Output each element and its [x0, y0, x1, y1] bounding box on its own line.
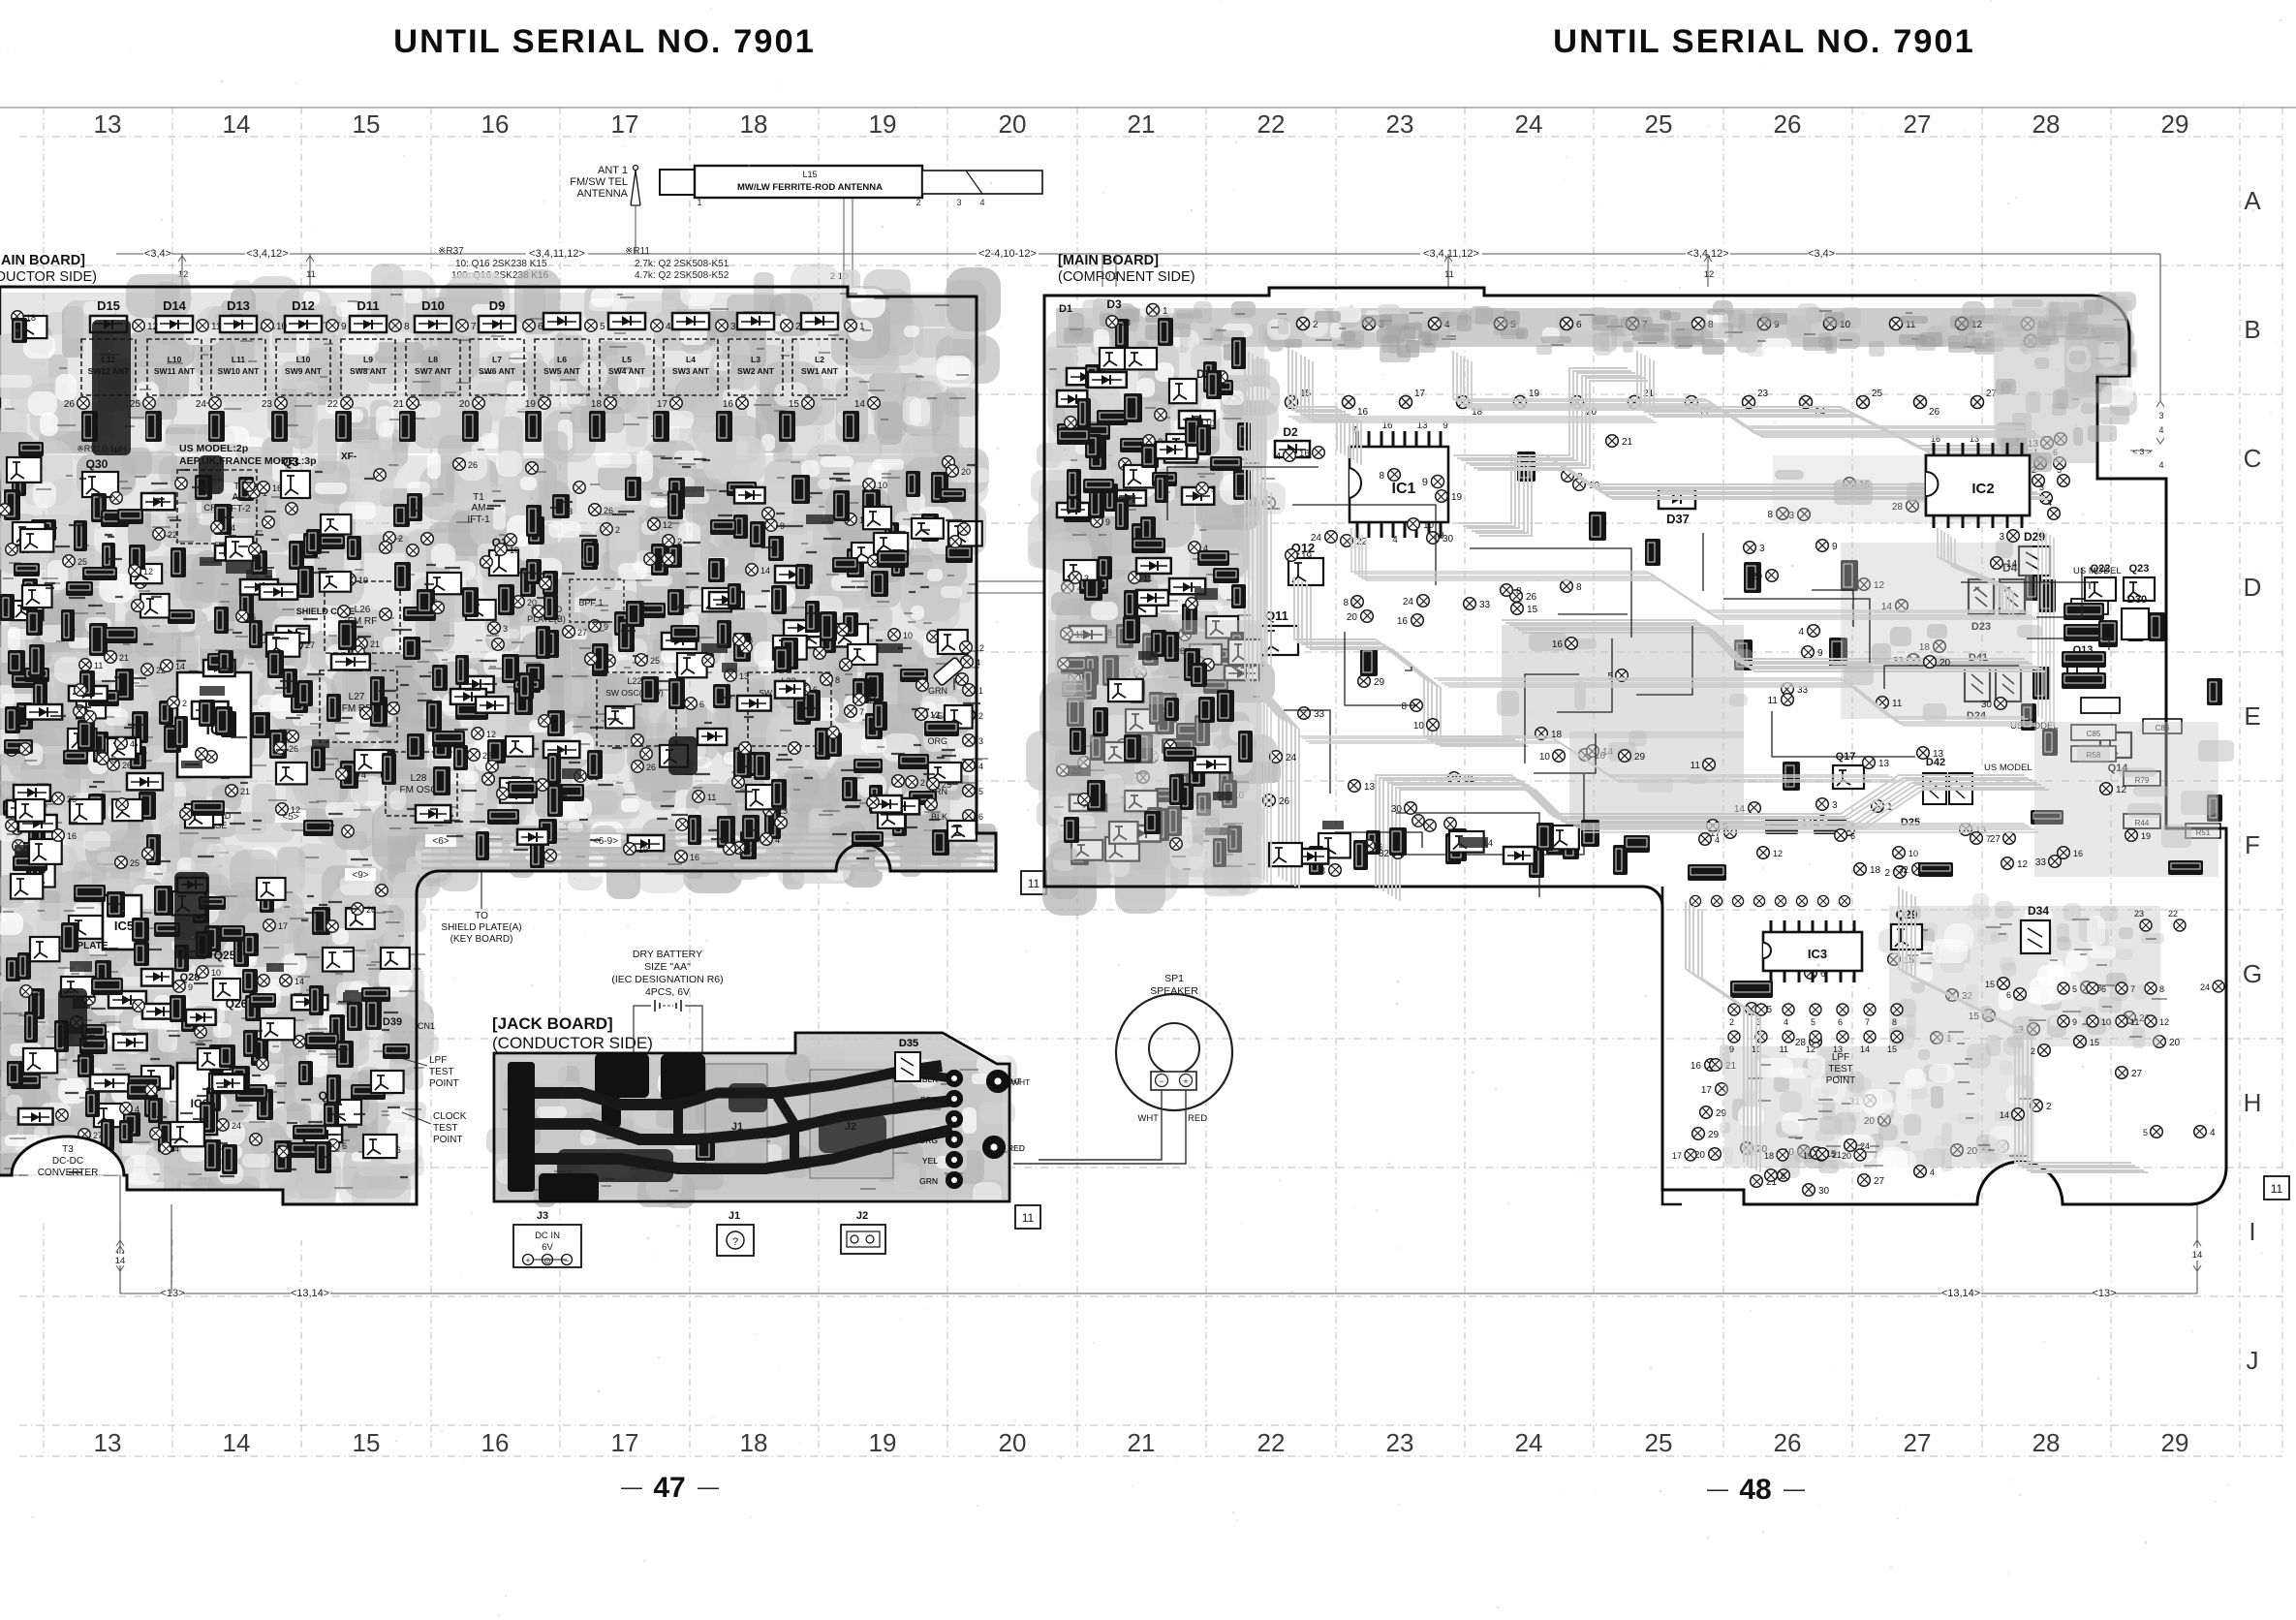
- svg-text:10: 10: [1423, 520, 1435, 531]
- svg-text:L10: L10: [168, 355, 182, 364]
- svg-text:13: 13: [1364, 782, 1376, 793]
- svg-text:ORG: ORG: [927, 736, 947, 746]
- svg-text:GRN: GRN: [928, 686, 947, 696]
- svg-text:2: 2: [35, 987, 40, 997]
- svg-text:10: 10: [211, 968, 221, 978]
- svg-text:32: 32: [1898, 865, 1909, 876]
- svg-text:30: 30: [1443, 534, 1454, 545]
- svg-text:4: 4: [130, 739, 135, 749]
- svg-text:SPEAKER: SPEAKER: [1150, 985, 1198, 997]
- svg-text:20: 20: [2169, 1038, 2181, 1048]
- svg-text:SW2 ANT: SW2 ANT: [737, 366, 775, 376]
- svg-text:IC2: IC2: [1971, 481, 1994, 497]
- svg-text:16: 16: [690, 853, 699, 862]
- svg-text:D30: D30: [2127, 594, 2147, 606]
- svg-text:17: 17: [278, 921, 288, 931]
- svg-text:24: 24: [1860, 1141, 1870, 1151]
- svg-text:5: 5: [2072, 984, 2077, 994]
- svg-text:2: 2: [1884, 868, 1890, 879]
- svg-text:L9: L9: [363, 355, 373, 364]
- svg-text:FM/SW TEL: FM/SW TEL: [570, 176, 628, 188]
- svg-text:+: +: [525, 1256, 530, 1265]
- svg-text:8: 8: [1781, 1171, 1785, 1181]
- svg-text:23: 23: [1386, 1428, 1414, 1457]
- svg-text:12: 12: [1704, 269, 1715, 280]
- svg-text:J: J: [2247, 1346, 2259, 1375]
- svg-text:19: 19: [525, 399, 537, 410]
- svg-text:21: 21: [1622, 437, 1633, 448]
- svg-text:POINT: POINT: [1826, 1075, 1856, 1086]
- svg-text:6: 6: [2006, 990, 2011, 1000]
- svg-text:14: 14: [2006, 559, 2018, 570]
- svg-text:24: 24: [232, 1121, 241, 1131]
- svg-text:<2-4,10-12>: <2-4,10-12>: [978, 248, 1037, 260]
- svg-text:8: 8: [1892, 1017, 1897, 1027]
- svg-text:L5: L5: [622, 355, 632, 364]
- svg-text:L4: L4: [686, 355, 696, 364]
- svg-text:UNTIL SERIAL NO. 7901: UNTIL SERIAL NO. 7901: [1553, 23, 1975, 60]
- svg-text:4: 4: [1715, 835, 1720, 845]
- svg-text:17: 17: [1414, 389, 1426, 399]
- svg-text:6: 6: [2101, 984, 2106, 994]
- svg-text:22: 22: [1257, 109, 1286, 139]
- svg-text:10: 10: [276, 322, 288, 332]
- svg-text:CONVERTER: CONVERTER: [38, 1168, 99, 1178]
- svg-text:24: 24: [1403, 597, 1414, 607]
- svg-text:18: 18: [740, 109, 768, 139]
- svg-text:29: 29: [2161, 1428, 2189, 1457]
- svg-text:26: 26: [1774, 109, 1802, 139]
- svg-text:13: 13: [1833, 1044, 1843, 1054]
- svg-text:30: 30: [1391, 804, 1403, 815]
- svg-text:I: I: [2249, 1217, 2255, 1246]
- svg-text:[MAIN BOARD]: [MAIN BOARD]: [0, 253, 85, 268]
- svg-text:14: 14: [2000, 1110, 2009, 1120]
- svg-text:19: 19: [869, 1428, 897, 1457]
- svg-text:22: 22: [168, 530, 177, 540]
- svg-text:SW1 ANT: SW1 ANT: [801, 366, 839, 376]
- svg-text:J1: J1: [729, 1210, 740, 1222]
- svg-text:19: 19: [738, 845, 748, 855]
- svg-text:21: 21: [1128, 1428, 1156, 1457]
- svg-text:23: 23: [1121, 318, 1131, 327]
- svg-text:33: 33: [1479, 600, 1491, 610]
- svg-text:6V: 6V: [542, 1242, 553, 1253]
- svg-text:11: 11: [707, 793, 716, 802]
- svg-text:2: 2: [398, 534, 403, 544]
- svg-text:16: 16: [1299, 449, 1311, 459]
- svg-text:L15: L15: [802, 170, 817, 179]
- svg-text:11: 11: [1691, 761, 1701, 771]
- svg-text:—: —: [621, 1475, 642, 1499]
- svg-text:J3: J3: [537, 1210, 548, 1222]
- svg-text:4: 4: [666, 322, 671, 332]
- svg-text:12: 12: [663, 520, 672, 530]
- svg-text:26: 26: [604, 506, 613, 515]
- svg-text:SW7 ANT: SW7 ANT: [415, 366, 452, 376]
- svg-text:5: 5: [1811, 1017, 1815, 1027]
- svg-text:<13>: <13>: [160, 1288, 184, 1299]
- svg-text:30: 30: [1981, 700, 1993, 710]
- svg-text:⊙: ⊙: [543, 1256, 551, 1265]
- svg-text:F: F: [2245, 830, 2260, 859]
- svg-text:2: 2: [182, 699, 187, 708]
- svg-text:WHT: WHT: [1137, 1113, 1159, 1124]
- svg-text:18: 18: [740, 1428, 768, 1457]
- svg-text:3: 3: [956, 198, 961, 207]
- svg-text:8: 8: [1343, 598, 1349, 608]
- svg-text:24: 24: [196, 399, 207, 410]
- svg-text:16: 16: [1397, 616, 1409, 627]
- svg-text:(KEY BOARD): (KEY BOARD): [450, 934, 513, 945]
- svg-text:9: 9: [1832, 542, 1838, 552]
- svg-text:BRN: BRN: [920, 1095, 938, 1105]
- svg-text:10: Q16 2SK238 K15: 10: Q16 2SK238 K15: [455, 259, 547, 269]
- svg-text:26: 26: [1929, 407, 1940, 418]
- svg-text:4: 4: [2158, 425, 2163, 435]
- svg-text:<3,4,12>: <3,4,12>: [246, 248, 288, 260]
- svg-text:6: 6: [813, 685, 818, 695]
- svg-text:14: 14: [223, 1428, 251, 1457]
- svg-text:10: 10: [903, 631, 913, 640]
- svg-text:25: 25: [942, 780, 951, 790]
- svg-text:12: 12: [486, 730, 496, 739]
- svg-text:E: E: [2244, 701, 2260, 731]
- svg-text:2: 2: [978, 711, 983, 721]
- svg-text:DC-DC: DC-DC: [52, 1156, 83, 1167]
- svg-text:4.7k: Q2 2SK508-K52: 4.7k: Q2 2SK508-K52: [635, 270, 729, 281]
- svg-text:7: 7: [1986, 834, 1991, 844]
- svg-text:H: H: [2244, 1088, 2262, 1117]
- svg-text:3: 3: [1084, 574, 1089, 583]
- svg-text:24: 24: [1515, 109, 1543, 139]
- svg-text:13: 13: [94, 1428, 122, 1457]
- svg-text:16: 16: [1691, 1061, 1702, 1072]
- svg-text:<6>: <6>: [432, 836, 449, 847]
- svg-text:TEST: TEST: [429, 1067, 454, 1077]
- svg-text:14: 14: [760, 566, 770, 576]
- svg-text:SW5 ANT: SW5 ANT: [543, 366, 581, 376]
- svg-text:2: 2: [920, 778, 925, 788]
- svg-text:15: 15: [1887, 1044, 1897, 1054]
- svg-text:<9>: <9>: [352, 870, 368, 881]
- svg-text:24: 24: [2200, 982, 2210, 992]
- svg-text:11: 11: [2271, 1182, 2283, 1196]
- svg-text:B: B: [2244, 315, 2260, 344]
- svg-text:22: 22: [327, 399, 339, 410]
- svg-text:SW3 ANT: SW3 ANT: [672, 366, 710, 376]
- svg-text:3: 3: [2039, 483, 2044, 492]
- svg-text:MW/LW FERRITE-ROD ANTENNA: MW/LW FERRITE-ROD ANTENNA: [737, 182, 883, 193]
- svg-text:29: 29: [2161, 109, 2189, 139]
- svg-text:5: 5: [978, 787, 983, 796]
- svg-text:10: 10: [1539, 752, 1551, 763]
- svg-text:(CONDUCTOR SIDE): (CONDUCTOR SIDE): [0, 269, 97, 285]
- svg-text:T3: T3: [62, 1144, 74, 1155]
- svg-text:Q30: Q30: [86, 457, 109, 471]
- svg-text:25: 25: [650, 656, 660, 666]
- svg-text:L8: L8: [428, 355, 438, 364]
- svg-text:11: 11: [1768, 696, 1779, 706]
- svg-text:G: G: [2243, 959, 2262, 988]
- svg-text:26: 26: [468, 460, 478, 470]
- svg-text:26: 26: [646, 763, 656, 772]
- svg-text:D39: D39: [383, 1016, 402, 1028]
- svg-text:9: 9: [1105, 517, 1110, 527]
- svg-text:14: 14: [854, 399, 866, 410]
- svg-text:SP1: SP1: [1164, 973, 1184, 984]
- svg-text:D11: D11: [357, 298, 379, 313]
- svg-text:9: 9: [604, 622, 608, 632]
- svg-text:16: 16: [723, 399, 734, 410]
- svg-text:YEL: YEL: [922, 1156, 938, 1166]
- svg-text:—: —: [698, 1475, 719, 1499]
- svg-text:7: 7: [859, 707, 864, 717]
- svg-text:6: 6: [342, 1141, 347, 1151]
- svg-text:25: 25: [78, 557, 87, 567]
- svg-text:4: 4: [1392, 535, 1398, 545]
- svg-text:2: 2: [915, 198, 920, 207]
- svg-text:3: 3: [730, 322, 736, 332]
- svg-text:DRY BATTERY: DRY BATTERY: [633, 949, 702, 960]
- svg-text:10: 10: [2101, 1017, 2111, 1027]
- svg-text:L27: L27: [349, 692, 365, 702]
- svg-text:48: 48: [1739, 1474, 1771, 1506]
- svg-text:BLK: BLK: [922, 1075, 938, 1084]
- svg-text:25: 25: [1872, 389, 1883, 399]
- svg-text:4: 4: [2210, 1128, 2216, 1138]
- svg-text:AM: AM: [472, 503, 486, 514]
- svg-text:D9: D9: [489, 298, 506, 313]
- svg-text:11: 11: [306, 269, 316, 280]
- svg-text:3: 3: [503, 624, 508, 634]
- svg-text:<13>: <13>: [2092, 1288, 2116, 1299]
- svg-text:SIZE "AA": SIZE "AA": [644, 961, 691, 973]
- svg-text:10: 10: [878, 481, 887, 490]
- svg-text:8: 8: [835, 675, 840, 685]
- svg-text:11: 11: [1028, 877, 1040, 890]
- svg-text:27: 27: [1990, 834, 2001, 845]
- svg-text:26: 26: [482, 751, 492, 761]
- svg-text:Q23: Q23: [2129, 563, 2150, 575]
- svg-text:WHT: WHT: [1011, 1077, 1030, 1087]
- svg-text:25: 25: [1645, 109, 1673, 139]
- svg-text:(COMPONENT SIDE): (COMPONENT SIDE): [1058, 269, 1195, 285]
- svg-text:−: −: [1159, 1076, 1164, 1086]
- svg-text:26: 26: [1774, 1428, 1802, 1457]
- svg-text:16: 16: [481, 1428, 510, 1457]
- svg-text:Q11: Q11: [1265, 608, 1288, 623]
- svg-text:26: 26: [366, 905, 376, 915]
- svg-text:D13: D13: [227, 298, 250, 313]
- svg-text:<3,4,11,12>: <3,4,11,12>: [1423, 248, 1479, 260]
- svg-text:+: +: [1183, 1076, 1188, 1086]
- svg-text:19: 19: [638, 845, 648, 855]
- svg-text:D12: D12: [292, 298, 315, 313]
- svg-text:3: 3: [1999, 532, 2004, 543]
- svg-text:6: 6: [699, 700, 704, 709]
- svg-text:21: 21: [119, 653, 129, 663]
- svg-text:10: 10: [1413, 721, 1425, 732]
- svg-text:12: 12: [2159, 1017, 2169, 1027]
- svg-text:13: 13: [1878, 759, 1890, 769]
- svg-text:4: 4: [1930, 1168, 1935, 1177]
- svg-text:23: 23: [2134, 909, 2144, 919]
- svg-text:20: 20: [961, 467, 971, 477]
- svg-text:(CONDUCTOR SIDE): (CONDUCTOR SIDE): [492, 1034, 653, 1052]
- svg-text:25: 25: [1645, 1428, 1673, 1457]
- svg-text:−: −: [564, 1256, 569, 1265]
- svg-text:IC1: IC1: [1392, 481, 1416, 497]
- svg-text:12: 12: [930, 710, 940, 720]
- svg-text:27: 27: [1874, 1176, 1885, 1187]
- svg-text:19: 19: [358, 576, 368, 585]
- svg-text:11: 11: [1143, 574, 1152, 583]
- svg-text:25: 25: [67, 794, 77, 804]
- svg-text:20: 20: [999, 1428, 1027, 1457]
- svg-text:21: 21: [240, 787, 250, 796]
- svg-text:US MODEL:2p: US MODEL:2p: [179, 443, 248, 454]
- svg-text:SW8 ANT: SW8 ANT: [350, 366, 388, 376]
- svg-text:16: 16: [2073, 849, 2083, 858]
- svg-text:L7: L7: [492, 355, 502, 364]
- svg-text:8: 8: [1576, 582, 1582, 593]
- svg-text:5: 5: [600, 322, 605, 332]
- svg-text:IC3: IC3: [1808, 947, 1827, 961]
- svg-text:D2: D2: [1283, 425, 1298, 439]
- svg-text:8: 8: [2159, 984, 2164, 994]
- svg-text:20: 20: [999, 109, 1027, 139]
- svg-text:12: 12: [1773, 849, 1783, 858]
- svg-text:L2: L2: [815, 355, 824, 364]
- svg-text:2: 2: [795, 322, 801, 332]
- svg-text:POINT: POINT: [429, 1078, 459, 1089]
- svg-text:12: 12: [147, 322, 159, 332]
- svg-text:21: 21: [370, 639, 380, 649]
- svg-text:7: 7: [2130, 984, 2135, 994]
- svg-text:XF-: XF-: [341, 452, 357, 462]
- svg-text:12: 12: [2116, 785, 2127, 795]
- svg-text:6: 6: [1378, 842, 1382, 852]
- svg-text:16: 16: [481, 109, 510, 139]
- svg-text:GRN: GRN: [919, 1176, 938, 1186]
- svg-text:—: —: [1707, 1477, 1728, 1501]
- svg-text:IFT-1: IFT-1: [467, 514, 490, 525]
- svg-text:9: 9: [2072, 1017, 2077, 1027]
- svg-text:11: 11: [1892, 699, 1903, 709]
- svg-text:6: 6: [538, 322, 543, 332]
- svg-text:L26: L26: [355, 605, 371, 615]
- svg-text:4PCS, 6V: 4PCS, 6V: [645, 986, 690, 998]
- svg-text:29: 29: [1634, 752, 1646, 763]
- svg-text:12: 12: [143, 567, 153, 576]
- svg-text:TEST: TEST: [433, 1123, 458, 1134]
- svg-text:29: 29: [1374, 677, 1385, 688]
- svg-text:4: 4: [775, 835, 780, 845]
- svg-text:<3,4>: <3,4>: [1808, 248, 1835, 260]
- svg-text:C: C: [2244, 444, 2262, 473]
- svg-text:11: 11: [868, 696, 877, 705]
- svg-text:30: 30: [1818, 1186, 1830, 1197]
- svg-text:11: 11: [1444, 269, 1454, 280]
- svg-text:20: 20: [1842, 1151, 1851, 1161]
- svg-text:—: —: [1784, 1477, 1805, 1501]
- svg-text:D3: D3: [1106, 297, 1122, 311]
- svg-text:<13,14>: <13,14>: [1941, 1288, 1980, 1299]
- svg-text:14: 14: [295, 977, 304, 986]
- svg-text:10 2: 10 2: [1101, 271, 1119, 282]
- svg-text:4: 4: [1784, 1017, 1788, 1027]
- svg-text:19: 19: [2141, 831, 2151, 841]
- svg-text:LPF: LPF: [429, 1055, 447, 1066]
- svg-text:11: 11: [94, 661, 103, 670]
- svg-text:13: 13: [94, 109, 122, 139]
- svg-text:< 3 >: < 3 >: [2132, 447, 2151, 456]
- svg-text:27: 27: [1904, 1428, 1932, 1457]
- svg-text:1: 1: [978, 686, 983, 696]
- svg-text:2: 2: [615, 525, 620, 535]
- svg-text:4: 4: [978, 762, 983, 771]
- svg-text:3: 3: [978, 736, 983, 746]
- svg-text:SHIELD PLATE(A): SHIELD PLATE(A): [441, 922, 521, 933]
- svg-text:<6-9>: <6-9>: [593, 836, 618, 847]
- svg-text:L10: L10: [296, 355, 311, 364]
- svg-text:IC5: IC5: [114, 919, 134, 933]
- svg-text:ANTENNA: ANTENNA: [576, 188, 628, 200]
- svg-text:19: 19: [869, 109, 897, 139]
- svg-text:6: 6: [1838, 1017, 1843, 1027]
- svg-text:8: 8: [1767, 510, 1773, 520]
- svg-text:<3,4>: <3,4>: [144, 248, 171, 260]
- svg-text:Q3: Q3: [282, 454, 298, 469]
- svg-text:16: 16: [1552, 639, 1564, 650]
- svg-text:UNTIL SERIAL NO. 7901: UNTIL SERIAL NO. 7901: [393, 23, 816, 60]
- svg-text:15: 15: [1985, 980, 1995, 989]
- svg-text:12: 12: [2017, 859, 2029, 870]
- svg-text:7: 7: [1865, 1017, 1870, 1027]
- svg-text:21: 21: [1832, 1150, 1842, 1160]
- svg-text:Q22: Q22: [2091, 563, 2111, 575]
- svg-text:(IEC DESIGNATION R6): (IEC DESIGNATION R6): [611, 974, 723, 985]
- svg-text:15: 15: [353, 1428, 381, 1457]
- svg-text:15: 15: [1527, 605, 1538, 615]
- svg-text:SW11 ANT: SW11 ANT: [154, 366, 196, 376]
- svg-text:1: 1: [859, 322, 865, 332]
- svg-text:SW10 ANT: SW10 ANT: [218, 366, 260, 376]
- svg-text:CN1: CN1: [418, 1021, 435, 1031]
- svg-text:11: 11: [211, 322, 222, 332]
- svg-text:9: 9: [1729, 1044, 1734, 1054]
- svg-text:9: 9: [748, 844, 753, 854]
- svg-text:11: 11: [2130, 1017, 2139, 1027]
- svg-text:27: 27: [2131, 1069, 2143, 1079]
- svg-text:4: 4: [979, 198, 984, 207]
- svg-text:16: 16: [272, 483, 282, 493]
- svg-text:47: 47: [653, 1472, 685, 1504]
- svg-text:14: 14: [223, 109, 251, 139]
- svg-text:9: 9: [1817, 648, 1823, 659]
- svg-text:?: ?: [732, 1236, 738, 1248]
- svg-text:2.7k: Q2 2SK508-K51: 2.7k: Q2 2SK508-K51: [635, 259, 729, 269]
- svg-text:12: 12: [1806, 1044, 1815, 1054]
- svg-text:L11: L11: [232, 355, 245, 364]
- svg-text:[JACK BOARD]: [JACK BOARD]: [492, 1014, 613, 1033]
- svg-text:L3: L3: [751, 355, 760, 364]
- svg-text:10: 10: [1908, 849, 1918, 858]
- svg-text:※R37: ※R37: [438, 246, 464, 257]
- svg-text:8: 8: [748, 636, 753, 645]
- svg-text:18: 18: [26, 313, 36, 323]
